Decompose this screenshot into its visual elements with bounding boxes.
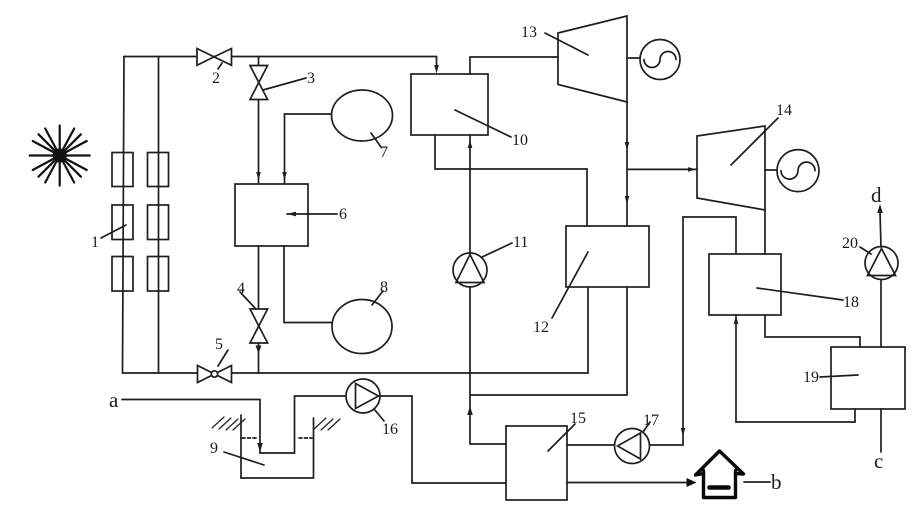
arrow into turbine 14 bbox=[688, 167, 696, 172]
turbine 14 bbox=[697, 102, 792, 210]
label 12 bbox=[533, 252, 588, 336]
wire c line bbox=[880, 409, 882, 452]
borehole 9 bbox=[212, 415, 340, 478]
valve 5 bbox=[198, 336, 232, 383]
svg-text:19: 19 bbox=[803, 369, 819, 386]
wire evaporator10 to condenser12 bbox=[435, 135, 587, 226]
svg-text:d: d bbox=[871, 183, 882, 207]
svg-text:15: 15 bbox=[570, 410, 586, 427]
collector panel 1d bbox=[148, 153, 169, 187]
label 9 bbox=[210, 440, 264, 465]
wire valve3 branch bbox=[258, 57, 260, 185]
wire collector pipe right bbox=[158, 57, 160, 374]
arrow into HX18 bottom bbox=[734, 316, 739, 324]
wire heater15 to house bbox=[567, 482, 689, 484]
collector panel 1a bbox=[112, 153, 133, 187]
collector panel 1b bbox=[112, 205, 133, 240]
collector panel 1c bbox=[112, 257, 133, 292]
arrow below valve4 bbox=[256, 346, 262, 354]
wire pump20 line bbox=[880, 280, 882, 347]
arrow into HX6 right bbox=[282, 172, 287, 180]
arrow into evaporator bottom bbox=[468, 140, 473, 148]
wire HX18 bottom return bbox=[736, 315, 855, 422]
valve 4 bbox=[237, 280, 268, 343]
arrow d bbox=[877, 204, 883, 213]
arrow into house bbox=[687, 478, 697, 487]
pump 11 bbox=[453, 234, 528, 287]
label 15 bbox=[548, 410, 586, 451]
wire ground loop to pump16 bbox=[295, 395, 347, 397]
svg-text:16: 16 bbox=[382, 421, 398, 438]
wire top header bbox=[124, 56, 437, 58]
svg-text:9: 9 bbox=[210, 440, 218, 457]
wire condensate return bbox=[470, 287, 627, 395]
heat exchanger 6 bbox=[235, 184, 308, 246]
pump 20 bbox=[842, 235, 898, 280]
arrow riser down bbox=[681, 428, 686, 436]
svg-text:17: 17 bbox=[643, 412, 659, 429]
svg-text:20: 20 bbox=[842, 235, 858, 252]
svg-text:7: 7 bbox=[380, 144, 388, 161]
heater 15 bbox=[506, 426, 567, 500]
svg-text:4: 4 bbox=[237, 280, 245, 297]
wire steam line to turbine 13 bbox=[470, 57, 558, 74]
svg-text:c: c bbox=[874, 449, 883, 473]
condenser 12 bbox=[566, 226, 649, 287]
wire feed vertical through pump 11 bbox=[470, 135, 506, 444]
valve 3 bbox=[250, 66, 315, 100]
wire main bottom header bbox=[123, 287, 589, 373]
svg-text:18: 18 bbox=[843, 294, 859, 311]
svg-text:b: b bbox=[771, 470, 782, 494]
generator G1 bbox=[627, 40, 680, 80]
valve 2 bbox=[197, 49, 232, 88]
house load bbox=[696, 451, 744, 498]
wire pump20 to d bbox=[880, 212, 881, 247]
svg-text:a: a bbox=[109, 388, 119, 412]
wire collector pipe left bbox=[123, 57, 125, 374]
boiler 19 bbox=[831, 347, 905, 409]
label 6 bbox=[287, 206, 347, 223]
sun symbol bbox=[30, 126, 90, 186]
label 18 bbox=[757, 288, 859, 311]
label 19 bbox=[803, 369, 858, 386]
wire pump16 to heater15 bbox=[380, 396, 506, 483]
svg-text:11: 11 bbox=[513, 234, 528, 251]
label 1 bbox=[91, 225, 126, 251]
wire district riser bbox=[567, 217, 736, 445]
turbine 13 bbox=[521, 16, 627, 102]
svg-text:14: 14 bbox=[776, 102, 792, 119]
svg-text:8: 8 bbox=[380, 279, 388, 296]
svg-text:2: 2 bbox=[212, 70, 220, 87]
tank 7 bbox=[332, 90, 393, 161]
arrow into HX6 left bbox=[256, 172, 261, 180]
svg-text:10: 10 bbox=[512, 132, 528, 149]
collector panel 1e bbox=[148, 205, 169, 240]
generator G2 bbox=[765, 150, 819, 192]
tank 8 bbox=[332, 279, 392, 354]
wire turbine13 exhaust bbox=[626, 102, 628, 226]
pump 17 bbox=[615, 412, 660, 464]
arrow ground down bbox=[257, 443, 263, 452]
svg-text:12: 12 bbox=[533, 319, 549, 336]
label 10 bbox=[455, 110, 528, 149]
arrow into evaporator 10 bbox=[434, 65, 439, 74]
wire HX6 to valve4 bbox=[258, 246, 260, 373]
wire into evaporator 10 bbox=[436, 57, 438, 67]
wire turbine14 to HX18 bbox=[764, 210, 766, 254]
svg-text:5: 5 bbox=[215, 336, 223, 353]
wire house to b bbox=[744, 481, 770, 483]
arrow exhaust upper bbox=[625, 142, 630, 150]
wire branch to turbine 14 bbox=[627, 168, 697, 170]
arrow feed up bbox=[467, 406, 473, 415]
wire HX18 to boiler19 bbox=[765, 315, 860, 347]
wire a supply bbox=[122, 396, 295, 453]
regenerator 18 bbox=[709, 254, 781, 315]
pump 16 bbox=[346, 379, 398, 438]
evaporator 10 bbox=[411, 74, 488, 135]
wire tank8 to HX6 bbox=[284, 246, 332, 323]
svg-text:3: 3 bbox=[307, 70, 315, 87]
wire tank7 to HX6 bbox=[285, 114, 332, 184]
svg-text:13: 13 bbox=[521, 24, 537, 41]
svg-text:6: 6 bbox=[339, 206, 347, 223]
collector panel 1f bbox=[148, 257, 169, 292]
svg-text:1: 1 bbox=[91, 234, 99, 251]
arrow exhaust lower bbox=[625, 196, 630, 204]
